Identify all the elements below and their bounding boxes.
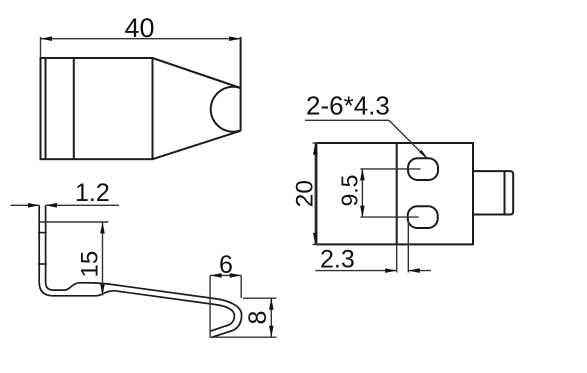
dim line 15 bbox=[102, 222, 104, 296]
extension line bottom of 20 bbox=[313, 243, 320, 245]
inner divider vertical line bbox=[396, 143, 398, 244]
extension line left of 6 bbox=[209, 275, 211, 338]
leader line bbox=[389, 120, 426, 157]
dim line 1.2 right segment bbox=[46, 204, 120, 206]
tab inner vertical line bbox=[504, 171, 506, 214]
dim line 40 bbox=[41, 38, 241, 40]
right end vertical line bbox=[240, 37, 242, 131]
dimension 6 bbox=[210, 275, 241, 338]
extension line top of 20 bbox=[313, 142, 320, 144]
taper top line bbox=[153, 58, 241, 88]
svg-text:2-6*4.3: 2-6*4.3 bbox=[306, 91, 390, 121]
lower slot bbox=[408, 206, 438, 228]
arrow up of 8 bbox=[269, 298, 274, 310]
arrow down of 8 bbox=[269, 326, 274, 338]
dim line 20 bbox=[314, 143, 316, 244]
label 2-6*4.3 with leader bbox=[305, 120, 426, 157]
arrow left of dim 40 bbox=[41, 36, 53, 41]
dimension 2.3 bbox=[315, 217, 431, 272]
inner vertical line 2 bbox=[73, 58, 75, 159]
arrow pointing left at 1.2 bbox=[45, 203, 57, 208]
arrow pointing left at 2.3 bbox=[408, 268, 420, 273]
tip arc bbox=[211, 87, 241, 132]
dim line 2.3 right tail bbox=[408, 270, 431, 272]
arrow up of 15 bbox=[100, 222, 105, 234]
extension line right of 6 bbox=[240, 275, 242, 298]
extension line bottom of 9.5 bbox=[360, 216, 418, 218]
arrow down of 9.5 bbox=[360, 206, 365, 218]
arrow up of 9.5 bbox=[360, 169, 365, 181]
arrow pointing right at 1.2 bbox=[28, 203, 40, 208]
right tab bbox=[473, 171, 513, 214]
main rectangle bbox=[316, 143, 473, 244]
svg-text:20: 20 bbox=[292, 180, 319, 207]
arrow right of 6 bbox=[230, 273, 242, 278]
arrow down of 20 bbox=[313, 233, 318, 245]
dimension 20 bbox=[313, 143, 320, 244]
svg-text:40: 40 bbox=[125, 13, 155, 43]
extension line top of 8 bbox=[243, 297, 277, 299]
extension line top of 15 bbox=[39, 221, 108, 223]
extension line top of 9.5 bbox=[360, 168, 420, 170]
svg-text:8: 8 bbox=[244, 311, 272, 325]
taper bottom line bbox=[153, 131, 241, 159]
tick on strip 2 bbox=[38, 263, 47, 265]
arrow up of 20 bbox=[313, 143, 318, 155]
svg-text:9.5: 9.5 bbox=[336, 175, 362, 207]
svg-text:2.3: 2.3 bbox=[320, 246, 355, 274]
arrow left of 6 bbox=[210, 273, 222, 278]
extension line left of 2.3 (divider extended) bbox=[396, 244, 398, 272]
inner vertical line 1 bbox=[45, 58, 47, 159]
extension line right of 2.3 (slot edge extended) bbox=[407, 217, 409, 272]
dim line 6 bbox=[210, 274, 241, 276]
dim line 9.5 bbox=[361, 169, 363, 217]
dim line 1.2 left segment bbox=[11, 204, 40, 206]
svg-text:6: 6 bbox=[219, 251, 233, 279]
clip inner surface line bbox=[46, 206, 242, 338]
upper slot bbox=[408, 158, 438, 180]
dimension 40 bbox=[41, 37, 241, 58]
clip outer surface line bbox=[39, 206, 234, 332]
dimension 15 bbox=[39, 222, 108, 296]
arrow pointing right at 2.3 bbox=[385, 268, 397, 273]
tick on strip 1 bbox=[38, 232, 47, 234]
svg-text:1.2: 1.2 bbox=[75, 179, 110, 207]
leader underline bbox=[305, 119, 389, 121]
dim line 8 bbox=[270, 298, 272, 337]
arrow right of dim 40 bbox=[229, 36, 241, 41]
left extension line bbox=[40, 37, 42, 58]
body outline rectangle bbox=[41, 58, 153, 159]
dimension 8 bbox=[211, 298, 277, 337]
leader arrow bbox=[419, 150, 428, 160]
dimension 9.5 bbox=[360, 169, 420, 217]
arrow down of 15 bbox=[100, 284, 105, 296]
svg-text:15: 15 bbox=[76, 251, 103, 278]
dim line 2.3 left tail bbox=[315, 270, 396, 272]
dimension 1.2 bbox=[11, 204, 120, 206]
extension line bottom of 8 bbox=[211, 336, 277, 338]
